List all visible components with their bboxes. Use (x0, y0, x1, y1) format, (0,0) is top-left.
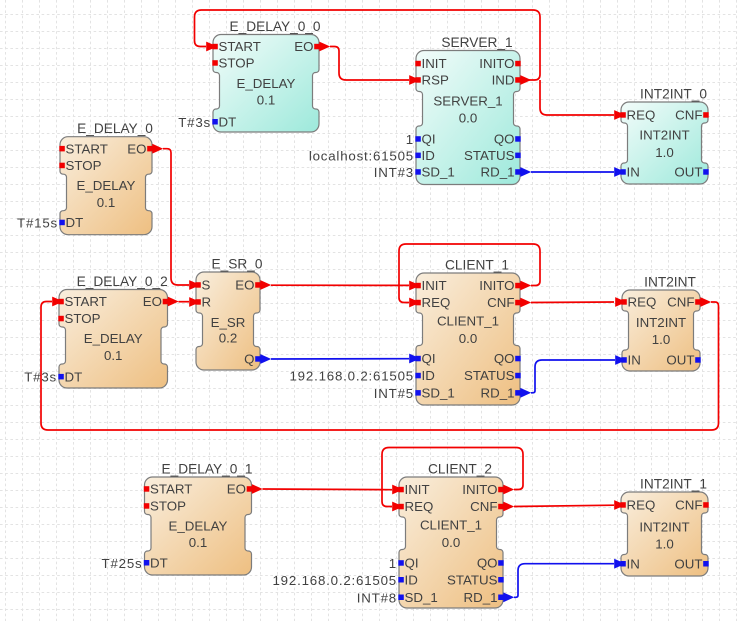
wire EO(E_DELAY_0_2) to R(E_SR_0) (179, 301, 190, 303)
function block CLIENT_1 (289, 258, 531, 406)
wire INITO(CLIENT_2) to REQ(CLIENT_2) (382, 448, 523, 507)
svg-text:ID: ID (422, 368, 435, 383)
svg-text:0.1: 0.1 (104, 348, 123, 363)
svg-text:SD_1: SD_1 (422, 165, 455, 180)
svg-text:INT2INT_1: INT2INT_1 (640, 477, 707, 492)
svg-text:EO: EO (127, 141, 146, 156)
svg-text:0.1: 0.1 (257, 93, 276, 108)
svg-text:RD_1: RD_1 (481, 386, 515, 401)
svg-text:IN: IN (628, 353, 641, 368)
svg-text:RSP: RSP (422, 73, 449, 88)
function block E_DELAY_0_2 (24, 274, 178, 388)
svg-text:STOP: STOP (219, 56, 255, 71)
wire RD_1(CLIENT_2) to IN(INT2INT_1) (514, 564, 614, 598)
function block E_SR_0 (189, 257, 271, 371)
svg-text:REQ: REQ (422, 295, 451, 310)
function block INT2INT_1 (614, 477, 709, 577)
wire IND(SERVER_1) to START(E_DELAY_0_0) (195, 10, 541, 80)
svg-text:1: 1 (389, 556, 397, 571)
svg-text:QI: QI (422, 351, 436, 366)
svg-text:1.0: 1.0 (652, 332, 671, 347)
svg-text:SERVER_1: SERVER_1 (433, 94, 502, 109)
function block E_DELAY_0_1 (102, 462, 263, 576)
svg-text:INT2INT: INT2INT (639, 128, 689, 143)
svg-text:STATUS: STATUS (464, 368, 515, 383)
svg-text:1.0: 1.0 (655, 537, 674, 552)
svg-text:SERVER_1: SERVER_1 (441, 35, 512, 50)
svg-text:INITO: INITO (479, 56, 514, 71)
svg-text:1: 1 (406, 132, 414, 147)
svg-text:EO: EO (294, 39, 313, 54)
svg-text:CNF: CNF (667, 295, 694, 310)
wire CNF(INT2INT) to START(E_DELAY_0_2) (41, 302, 719, 431)
svg-text:CNF: CNF (470, 499, 497, 514)
wire CNF(CLIENT_1) to REQ(INT2INT) (531, 301, 614, 304)
wire RD_1(SERVER_1) to IN(INT2INT_0) (531, 171, 614, 173)
svg-text:Q: Q (244, 352, 254, 367)
svg-text:INT2INT: INT2INT (636, 315, 686, 330)
svg-text:REQ: REQ (405, 499, 434, 514)
svg-text:T#15s: T#15s (17, 215, 58, 230)
svg-text:1.0: 1.0 (655, 145, 674, 160)
svg-text:CNF: CNF (487, 295, 514, 310)
svg-text:0.0: 0.0 (459, 111, 478, 126)
svg-text:EO: EO (235, 278, 254, 293)
svg-text:START: START (65, 294, 107, 309)
wire RD_1(CLIENT_1) to IN(INT2INT) (531, 360, 615, 393)
function block CLIENT_2 (272, 462, 514, 609)
wire EO(E_DELAY_0_0) to RSP(SERVER_1) (330, 47, 409, 81)
svg-text:CLIENT_1: CLIENT_1 (437, 314, 499, 329)
svg-text:192.168.0.2:61505: 192.168.0.2:61505 (272, 573, 397, 588)
svg-text:192.168.0.2:61505: 192.168.0.2:61505 (289, 369, 414, 384)
svg-text:QI: QI (405, 556, 419, 571)
svg-text:ID: ID (422, 148, 435, 163)
svg-text:DT: DT (219, 115, 237, 130)
wire EO(E_DELAY_0_1) to INIT(CLIENT_2) (263, 488, 393, 491)
svg-text:RD_1: RD_1 (481, 165, 515, 180)
svg-text:SD_1: SD_1 (422, 386, 455, 401)
svg-text:INT2INT: INT2INT (639, 520, 689, 535)
svg-text:EO: EO (227, 482, 246, 497)
svg-text:0.0: 0.0 (442, 535, 461, 550)
function block E_DELAY_0 (17, 121, 163, 235)
svg-text:E_DELAY: E_DELAY (237, 76, 296, 91)
svg-text:CLIENT_1: CLIENT_1 (420, 518, 482, 533)
svg-text:INITO: INITO (462, 482, 497, 497)
svg-text:E_SR_0: E_SR_0 (212, 257, 263, 272)
svg-text:CLIENT_1: CLIENT_1 (445, 258, 509, 273)
svg-text:RD_1: RD_1 (464, 590, 498, 605)
svg-text:CLIENT_2: CLIENT_2 (428, 462, 492, 477)
svg-text:INIT: INIT (422, 56, 447, 71)
svg-text:R: R (202, 295, 212, 310)
svg-text:INT#5: INT#5 (374, 386, 414, 401)
svg-text:IN: IN (627, 556, 640, 571)
svg-text:E_DELAY: E_DELAY (84, 331, 143, 346)
svg-text:CNF: CNF (675, 498, 702, 513)
svg-text:STOP: STOP (65, 311, 101, 326)
svg-text:QI: QI (422, 132, 436, 147)
svg-text:OUT: OUT (674, 556, 702, 571)
svg-text:OUT: OUT (674, 165, 702, 180)
svg-text:OUT: OUT (666, 353, 694, 368)
svg-text:START: START (150, 482, 192, 497)
svg-text:STATUS: STATUS (447, 573, 498, 588)
function block INT2INT_0 (614, 87, 709, 185)
svg-text:S: S (202, 278, 211, 293)
svg-text:DT: DT (150, 556, 168, 571)
wire EO(E_DELAY_0) to S(E_SR_0) (163, 149, 189, 285)
svg-text:T#25s: T#25s (102, 556, 143, 571)
svg-text:DT: DT (66, 215, 84, 230)
svg-text:REQ: REQ (627, 108, 656, 123)
wire IND(SERVER_1) to REQ(INT2INT_0) (540, 80, 614, 115)
svg-text:INITO: INITO (479, 278, 514, 293)
svg-text:E_DELAY_0: E_DELAY_0 (77, 121, 153, 136)
svg-text:QO: QO (494, 132, 515, 147)
wire CNF(CLIENT_2) to REQ(INT2INT_1) (514, 505, 614, 506)
svg-text:STOP: STOP (150, 499, 186, 514)
wire EO(E_SR_0) to INIT(CLIENT_1) (271, 284, 409, 286)
svg-text:0.1: 0.1 (189, 535, 208, 550)
svg-text:INT2INT: INT2INT (644, 275, 696, 290)
svg-text:0.1: 0.1 (97, 195, 116, 210)
svg-text:E_DELAY: E_DELAY (77, 178, 136, 193)
svg-text:INT#3: INT#3 (374, 165, 414, 180)
svg-text:0.2: 0.2 (219, 331, 238, 346)
svg-text:INT#8: INT#8 (357, 590, 397, 605)
svg-text:T#3s: T#3s (24, 370, 57, 385)
svg-text:SD_1: SD_1 (405, 590, 438, 605)
function block SERVER_1 (309, 35, 531, 185)
svg-text:START: START (66, 141, 108, 156)
svg-text:REQ: REQ (627, 498, 656, 513)
svg-text:E_SR: E_SR (211, 315, 246, 330)
svg-text:INIT: INIT (422, 278, 447, 293)
function block INT2INT (615, 275, 711, 372)
svg-text:EO: EO (143, 294, 162, 309)
svg-text:INT2INT_0: INT2INT_0 (640, 87, 707, 102)
svg-text:localhost:61505: localhost:61505 (309, 148, 414, 163)
svg-text:IN: IN (627, 165, 640, 180)
svg-text:ID: ID (405, 573, 418, 588)
wire INITO(CLIENT_1) to REQ(CLIENT_1) (399, 244, 540, 303)
svg-text:0.0: 0.0 (459, 331, 478, 346)
function block E_DELAY_0_0 (178, 19, 330, 132)
svg-text:QO: QO (477, 556, 498, 571)
svg-text:CNF: CNF (675, 108, 702, 123)
svg-text:T#3s: T#3s (178, 115, 211, 130)
svg-text:DT: DT (65, 369, 83, 384)
svg-text:QO: QO (494, 351, 515, 366)
svg-text:START: START (219, 39, 261, 54)
svg-text:INIT: INIT (405, 482, 430, 497)
svg-text:E_DELAY_0_0: E_DELAY_0_0 (229, 19, 320, 34)
svg-text:IND: IND (492, 73, 515, 88)
svg-text:STATUS: STATUS (464, 148, 515, 163)
svg-text:E_DELAY: E_DELAY (169, 519, 228, 534)
svg-text:STOP: STOP (66, 158, 102, 173)
svg-text:REQ: REQ (628, 295, 657, 310)
wire Q(E_SR_0) to QI(CLIENT_1) (271, 358, 409, 360)
svg-text:E_DELAY_0_1: E_DELAY_0_1 (161, 462, 252, 477)
svg-text:E_DELAY_0_2: E_DELAY_0_2 (77, 274, 168, 289)
